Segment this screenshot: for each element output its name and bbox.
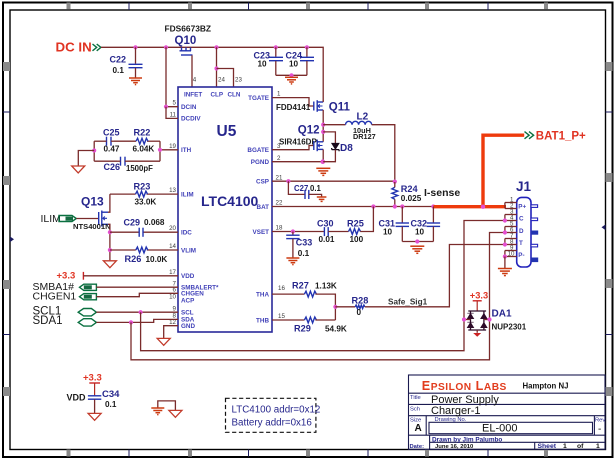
wire: C31-C32 ground link — [402, 241, 433, 243]
capacitor C29 — [124, 218, 165, 237]
svg-text:10: 10 — [415, 227, 425, 236]
wire: +3.3 to VDD — [83, 275, 178, 277]
svg-text:1: 1 — [277, 91, 281, 98]
inductor L2 — [323, 112, 395, 182]
port SMBA1# connector — [80, 284, 97, 290]
title block drawing-no inset box — [429, 422, 593, 433]
wire: CSP pin 21 — [272, 180, 395, 182]
wire: Q13 source down — [108, 224, 110, 260]
svg-text:1500pF: 1500pF — [126, 164, 153, 173]
svg-text:R28: R28 — [352, 296, 369, 306]
capacitor C34 — [67, 389, 121, 413]
svg-text:10: 10 — [258, 60, 268, 69]
junction at DCIN — [164, 105, 168, 109]
wire: battery thick red to J1 — [433, 205, 506, 208]
svg-text:C25: C25 — [103, 127, 120, 137]
ground triangle at Q13 — [103, 261, 116, 268]
port chevron BAT1_P+ — [525, 132, 534, 139]
svg-text:DCDIV: DCDIV — [181, 116, 201, 123]
wire: SCL bus run to J1 — [141, 221, 505, 351]
junction thermistor node — [333, 305, 337, 309]
svg-text:LTC4100 addr=0x12: LTC4100 addr=0x12 — [232, 404, 321, 415]
junction DA1 left on SCL riser — [462, 317, 466, 321]
wire: BAT pin 22 line — [272, 206, 433, 208]
svg-text:13: 13 — [169, 187, 176, 194]
junction Q13/C29 — [108, 230, 112, 234]
junction J1 pin4 C — [503, 218, 507, 222]
svg-text:CLP: CLP — [211, 91, 224, 98]
svg-text:R22: R22 — [134, 127, 151, 137]
svg-text:Sheet: Sheet — [538, 443, 557, 450]
wire: DC IN top rail — [101, 47, 323, 101]
wire: J1 P- to ground — [504, 257, 506, 269]
resistor R22 — [133, 127, 155, 153]
capacitor C27 — [288, 181, 321, 199]
svg-text:TGATE: TGATE — [248, 95, 269, 102]
ground triangle at U5 GND — [157, 338, 170, 345]
junction red riser — [481, 205, 485, 209]
svg-text:Q11: Q11 — [329, 101, 351, 113]
svg-text:ITH: ITH — [181, 147, 192, 154]
svg-text:19: 19 — [169, 143, 176, 150]
svg-text:P-: P- — [518, 252, 524, 259]
svg-text:R24: R24 — [401, 184, 419, 194]
wire: DCIN pin 5 drop — [166, 47, 178, 106]
svg-text:14: 14 — [169, 243, 176, 250]
svg-text:T: T — [519, 240, 523, 247]
svg-text:10: 10 — [383, 227, 393, 236]
J1 right tabs — [531, 205, 538, 262]
svg-text:Rev: Rev — [595, 418, 605, 424]
junction on rail at C24 — [305, 45, 309, 49]
svg-text:VLIM: VLIM — [181, 247, 196, 254]
transistor Q12 — [298, 125, 323, 152]
wire: R23 to ILIM pin 13 — [110, 193, 136, 195]
svg-text:0.068: 0.068 — [144, 218, 165, 227]
svg-text:21: 21 — [276, 174, 283, 181]
svg-text:Drawing No.: Drawing No. — [435, 417, 467, 423]
junction BAT/VSET-R25 — [371, 204, 375, 208]
TITLE BLOCK — [409, 375, 606, 450]
ground triangle at C34 — [88, 413, 101, 420]
border tick lines bottom — [129, 450, 488, 457]
capacitor C24 — [286, 47, 315, 75]
resistor R27 — [292, 281, 337, 320]
svg-text:0.1: 0.1 — [113, 66, 125, 75]
port SDA1 connector — [78, 319, 96, 326]
svg-text:Power Supply: Power Supply — [431, 394, 499, 406]
svg-text:EPSILON LABS: EPSILON LABS — [422, 379, 507, 393]
svg-text:18: 18 — [276, 225, 283, 232]
border center arrow left — [10, 237, 14, 243]
wire: CLP drop — [216, 47, 218, 87]
capacitor C33 — [286, 232, 312, 259]
svg-text:CHGEN: CHGEN — [181, 291, 204, 298]
svg-text:ILIM: ILIM — [41, 213, 61, 225]
svg-text:0: 0 — [357, 308, 362, 317]
ground triangle at ITH loop — [72, 166, 85, 173]
svg-text:C29: C29 — [124, 218, 141, 228]
svg-text:THB: THB — [256, 317, 269, 324]
wire: ITH loop to ground — [78, 151, 94, 166]
transistor Q13 — [73, 194, 111, 231]
capacitor C32 — [411, 207, 441, 242]
svg-text:THA: THA — [256, 291, 269, 298]
svg-text:CSP: CSP — [256, 179, 269, 186]
svg-text:Q12: Q12 — [298, 125, 320, 137]
U5 right pin numbers — [276, 91, 286, 321]
svg-text:NTS4001N: NTS4001N — [73, 222, 111, 231]
svg-text:C34: C34 — [102, 389, 120, 400]
capacitor C22 — [110, 47, 143, 77]
junction BAT/C31 — [400, 204, 404, 208]
junction SDA drop — [129, 320, 133, 324]
svg-text:ACP: ACP — [181, 298, 194, 305]
wire: SDA bus run to J1 — [131, 233, 505, 360]
svg-text:Charger-1: Charger-1 — [431, 405, 481, 417]
junction BAT/C32/red — [431, 204, 435, 208]
svg-text:0.01: 0.01 — [319, 235, 335, 244]
svg-text:SDA1: SDA1 — [33, 315, 63, 327]
svg-text:6.04K: 6.04K — [133, 145, 155, 154]
svg-text:C26: C26 — [104, 162, 121, 172]
svg-text:U5: U5 — [217, 123, 237, 140]
wire: SCL1 to pin 9 — [96, 311, 178, 313]
svg-text:C30: C30 — [317, 218, 334, 228]
junction C31/C32 ground — [415, 239, 419, 243]
svg-text:10.0K: 10.0K — [146, 255, 168, 264]
ITH compensation loop wires — [93, 141, 95, 161]
resistor R23 — [134, 181, 157, 206]
svg-text:0.1: 0.1 — [105, 400, 117, 409]
svg-text:10: 10 — [169, 294, 176, 301]
ground at C31/C32 — [410, 246, 424, 253]
svg-text:+3.3: +3.3 — [57, 271, 76, 282]
svg-text:VDD: VDD — [67, 392, 87, 402]
svg-text:C22: C22 — [110, 55, 127, 65]
svg-text:Q10: Q10 — [175, 35, 197, 47]
svg-text:+3.3: +3.3 — [470, 291, 488, 301]
wire: TGATE pin 1 to Q11 gate — [272, 98, 314, 106]
svg-text:Title: Title — [410, 395, 421, 401]
svg-text:VDD: VDD — [181, 273, 195, 280]
wire: CHGEN1 to pin 6 — [96, 293, 178, 296]
svg-text:11: 11 — [170, 112, 177, 119]
junction ITH loop right — [158, 148, 162, 152]
wire: spare ground bridge — [158, 401, 176, 410]
wire: Q12 source to ground node — [322, 149, 324, 161]
svg-text:I-sense: I-sense — [424, 187, 460, 199]
svg-text:10: 10 — [508, 251, 515, 258]
ground at C23/C24 — [285, 77, 298, 84]
junction on rail at C22 — [133, 45, 137, 49]
svg-text:GND: GND — [181, 323, 195, 330]
svg-text:1: 1 — [596, 443, 600, 450]
svg-text:IDC: IDC — [181, 230, 192, 237]
port SCL1 connector — [78, 309, 96, 316]
wire: SDA1 to pin 8 — [96, 319, 178, 322]
svg-text:2: 2 — [277, 155, 281, 162]
svg-text:SCL: SCL — [181, 310, 194, 317]
svg-text:10: 10 — [289, 60, 299, 69]
svg-text:Drawn by Jim Palumbo: Drawn by Jim Palumbo — [432, 436, 502, 443]
port chevron DC IN — [93, 44, 101, 51]
junction Q13/R26 — [108, 248, 112, 252]
resistor R24 — [392, 182, 422, 207]
junction J1 pin10 P- — [503, 254, 507, 258]
junction CSP/C27 — [286, 179, 290, 183]
capacitor C25 — [103, 127, 120, 153]
svg-text:P+: P+ — [518, 203, 526, 210]
svg-text:C33: C33 — [296, 238, 313, 248]
title block outer box — [409, 375, 606, 449]
wire: ILIM to Q13 gate — [76, 218, 98, 220]
svg-text:NUP2301: NUP2301 — [492, 323, 527, 332]
wire: Q13 drain up to R23 — [108, 194, 110, 212]
resistor R29 — [294, 317, 347, 334]
svg-text:BAT1_P+: BAT1_P+ — [536, 131, 586, 143]
ground bars spare — [151, 408, 164, 415]
svg-text:1.13K: 1.13K — [315, 282, 337, 291]
resistor R25 — [347, 207, 373, 244]
svg-text:A: A — [415, 423, 422, 434]
svg-text:Date:: Date: — [410, 444, 425, 450]
wire: THB pin 15 — [272, 319, 304, 321]
border tick lines left — [3, 112, 10, 335]
junction at CLP/CLN split — [214, 66, 218, 70]
capacitor C23 — [254, 47, 284, 75]
svg-text:C: C — [519, 216, 524, 223]
wire: C29 branch to IDC pin 20 — [110, 231, 139, 233]
svg-text:DR127: DR127 — [353, 132, 376, 141]
svg-text:DA1: DA1 — [492, 309, 512, 320]
svg-text:R29: R29 — [294, 324, 311, 334]
svg-text:DC IN: DC IN — [56, 40, 92, 55]
svg-text:PGND: PGND — [251, 159, 270, 166]
svg-text:INFET: INFET — [184, 91, 202, 98]
wire: Safe_Sig1 to J1 T pin — [365, 245, 505, 307]
svg-text:EL-000: EL-000 — [482, 423, 517, 435]
border tick squares top — [67, 3, 549, 10]
junction switch node to L2 — [321, 123, 325, 127]
border center arrow right — [602, 225, 606, 231]
svg-text:0.47: 0.47 — [104, 145, 120, 154]
diode array DA1 NUP2301 — [464, 291, 527, 337]
wire: ITH pin 19 — [160, 149, 178, 151]
junction SCL drop — [139, 310, 143, 314]
junction on rail at C23 — [274, 45, 278, 49]
transistor Q10 — [175, 35, 197, 87]
ground at C27 — [317, 197, 327, 201]
transistor Q11 — [314, 100, 351, 113]
wire: GND pin 12 — [164, 326, 178, 338]
svg-text:-: - — [598, 424, 601, 435]
svg-text:Battery addr=0x16: Battery addr=0x16 — [232, 418, 313, 429]
capacitor C26 — [104, 157, 154, 173]
border tick squares left — [3, 62, 10, 396]
junction power ground node — [321, 159, 326, 164]
op-amp U5 LTC4100 body — [178, 87, 272, 332]
U5 right pin names — [247, 95, 269, 324]
junction VSET/C33 — [291, 229, 295, 233]
svg-text:Q13: Q13 — [81, 194, 104, 208]
wire: battery thick red riser — [483, 135, 524, 207]
svg-text:Hampton NJ: Hampton NJ — [523, 382, 569, 391]
junction switch node to D8 — [321, 130, 325, 134]
wire: VSET pin 18 — [272, 231, 324, 233]
svg-text:4: 4 — [193, 77, 197, 84]
svg-text:J1: J1 — [516, 179, 532, 194]
connector J1 — [505, 179, 538, 267]
wire: DCDIV pin 11 hook — [166, 107, 178, 119]
svg-text:17: 17 — [169, 269, 176, 276]
svg-text:5: 5 — [173, 100, 177, 107]
svg-text:R25: R25 — [347, 218, 364, 228]
junction J1 pin8 T — [503, 242, 507, 246]
J1 pin stubs — [505, 203, 517, 257]
resistor R26 — [125, 247, 168, 264]
svg-text:0.1: 0.1 — [310, 184, 322, 193]
border tick squares right — [606, 62, 613, 396]
svg-text:9: 9 — [173, 306, 177, 313]
wire: C23-C24 ground link — [276, 74, 307, 76]
svg-text:+3.3: +3.3 — [83, 373, 102, 384]
border tick lines right — [606, 112, 613, 335]
svg-text:0.025: 0.025 — [401, 194, 422, 203]
U5 left pin numbers — [169, 100, 176, 327]
U5 left pin names — [181, 104, 219, 330]
J1 pin numbers — [508, 197, 515, 258]
J1 pin labels — [518, 203, 526, 259]
svg-text:33.0K: 33.0K — [135, 197, 157, 206]
svg-text:LTC4100: LTC4100 — [201, 193, 259, 209]
svg-text:FDD4141: FDD4141 — [276, 103, 311, 112]
wire: PGND pin 2 to ground node — [272, 161, 322, 163]
svg-text:BAT: BAT — [257, 204, 270, 211]
svg-text:100: 100 — [350, 235, 364, 244]
svg-text:R23: R23 — [134, 181, 151, 191]
svg-text:of: of — [577, 443, 584, 450]
svg-text:R27: R27 — [292, 281, 309, 291]
junction BAT/R24 — [393, 204, 397, 208]
svg-text:CHGEN1: CHGEN1 — [33, 291, 77, 303]
ground triangle spare — [169, 410, 182, 417]
wire: Q11 drain down to switch node — [322, 100, 324, 102]
svg-text:SIR416DP: SIR416DP — [279, 138, 317, 147]
junction J1 pin6 D — [503, 230, 507, 234]
ground at J1 — [498, 269, 512, 276]
svg-text:24: 24 — [218, 77, 225, 84]
svg-text:CLN: CLN — [228, 91, 241, 98]
svg-text:ILIM: ILIM — [181, 191, 194, 198]
svg-text:D: D — [519, 228, 524, 235]
junction on rail at CLP drop — [214, 45, 218, 49]
svg-text:June 16, 2010: June 16, 2010 — [435, 444, 474, 450]
wire: BGATE pin 3 to Q12 gate — [272, 146, 314, 150]
diode D8 — [323, 132, 353, 162]
title block row lines — [409, 392, 606, 394]
ground at Q12/PGND — [316, 168, 330, 175]
wire: THA pin 16 — [272, 293, 304, 295]
port CHGEN1 connector — [80, 294, 97, 300]
svg-text:VSET: VSET — [253, 229, 270, 236]
wire: SMBA1# to pin 7 — [96, 286, 178, 288]
svg-text:23: 23 — [235, 77, 242, 84]
wire: node to R28 — [335, 306, 355, 308]
resistor R28 — [352, 296, 369, 317]
junction CSP/R24 top — [393, 180, 397, 184]
svg-text:16: 16 — [278, 285, 285, 292]
ground at C33 — [286, 258, 299, 265]
svg-text:FDS6673BZ: FDS6673BZ — [165, 23, 212, 33]
port ILIM connector — [59, 216, 76, 222]
junction at C23/C24 ground — [289, 73, 293, 77]
svg-text:Safe_Sig1: Safe_Sig1 — [388, 297, 428, 306]
svg-text:22: 22 — [276, 200, 283, 207]
svg-text:C27: C27 — [294, 184, 308, 193]
junction on rail at DCIN drop — [164, 45, 168, 49]
svg-text:BGATE: BGATE — [247, 147, 269, 154]
svg-text:20: 20 — [169, 225, 176, 232]
junction ITH loop left — [92, 148, 96, 152]
svg-text:R26: R26 — [125, 254, 142, 264]
svg-text:0.1: 0.1 — [298, 249, 310, 258]
wire: R26 branch to VLIM pin 14 — [110, 249, 136, 251]
capacitor C31 — [379, 207, 410, 242]
junction DA1 right on SDA riser — [487, 317, 491, 321]
wire: Q10 gate to INFET pin 4 — [191, 55, 193, 87]
svg-text:54.9K: 54.9K — [325, 325, 347, 334]
svg-text:DCIN: DCIN — [181, 104, 197, 111]
capacitor C30 — [317, 218, 349, 244]
svg-text:D8: D8 — [340, 143, 353, 154]
ground at C22 — [129, 78, 142, 85]
svg-text:Sch: Sch — [410, 407, 420, 413]
svg-text:1: 1 — [563, 443, 567, 450]
border tick lines top — [129, 3, 488, 11]
svg-text:15: 15 — [278, 313, 285, 320]
border tick squares bottom — [67, 450, 549, 457]
wire: CLN branch — [217, 69, 234, 88]
note box addresses — [226, 398, 321, 432]
svg-text:L2: L2 — [357, 112, 369, 123]
